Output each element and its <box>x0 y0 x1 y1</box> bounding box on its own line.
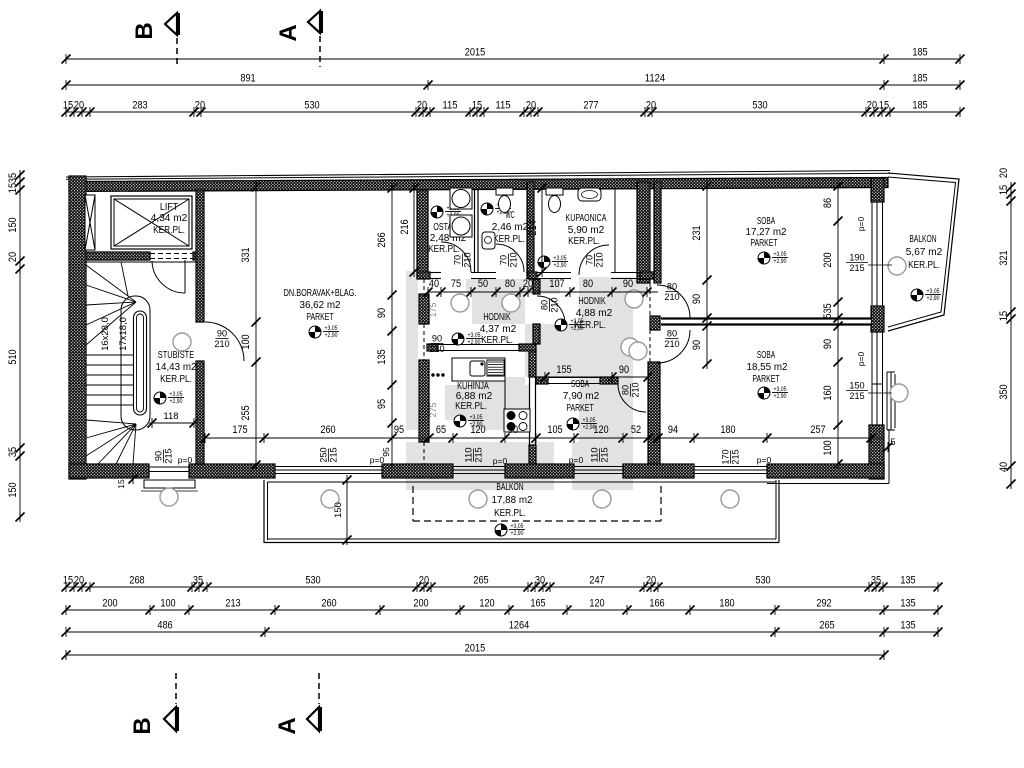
svg-text:321: 321 <box>998 250 1010 265</box>
svg-text:155: 155 <box>556 364 571 376</box>
svg-text:20: 20 <box>646 100 656 112</box>
svg-text:20: 20 <box>998 168 1010 178</box>
svg-text:80: 80 <box>583 278 593 290</box>
svg-text:p=0: p=0 <box>757 455 772 465</box>
svg-text:180: 180 <box>720 424 735 436</box>
svg-text:215: 215 <box>849 263 864 273</box>
svg-text:115: 115 <box>495 100 510 112</box>
svg-text:PARKET: PARKET <box>306 312 333 323</box>
svg-text:255: 255 <box>240 405 252 420</box>
svg-text:90: 90 <box>691 294 703 304</box>
svg-text:KER.PL.: KER.PL. <box>455 401 487 412</box>
svg-text:90: 90 <box>376 308 388 318</box>
svg-text:90: 90 <box>154 451 164 461</box>
svg-text:213: 213 <box>225 598 240 610</box>
svg-text:70: 70 <box>453 255 463 265</box>
svg-text:35: 35 <box>7 173 19 183</box>
svg-text:275: 275 <box>428 403 439 418</box>
svg-text:LIFT: LIFT <box>160 202 178 213</box>
svg-text:80: 80 <box>540 300 550 310</box>
svg-text:80: 80 <box>667 329 677 339</box>
svg-text:135: 135 <box>376 349 388 364</box>
svg-text:p=0: p=0 <box>569 455 584 465</box>
svg-text:16x28,0: 16x28,0 <box>100 317 111 351</box>
svg-text:70: 70 <box>499 255 509 265</box>
svg-text:5,90 m2: 5,90 m2 <box>568 225 605 236</box>
svg-text:65: 65 <box>436 424 446 436</box>
svg-text:190: 190 <box>849 253 864 263</box>
svg-text:PARKET: PARKET <box>566 403 593 414</box>
svg-text:185: 185 <box>912 100 927 112</box>
svg-text:90: 90 <box>822 339 834 349</box>
svg-text:75: 75 <box>451 278 461 290</box>
svg-text:14,43 m2: 14,43 m2 <box>156 362 197 373</box>
svg-text:20: 20 <box>74 575 84 587</box>
svg-text:100: 100 <box>240 334 252 349</box>
svg-text:17,88 m2: 17,88 m2 <box>492 495 533 506</box>
svg-text:214: 214 <box>527 220 539 235</box>
svg-text:260: 260 <box>321 598 336 610</box>
svg-text:+2,90: +2,90 <box>571 326 585 332</box>
svg-text:A: A <box>275 24 302 41</box>
svg-text:2015: 2015 <box>465 643 485 655</box>
svg-text:120: 120 <box>470 424 485 436</box>
svg-text:35: 35 <box>7 447 19 457</box>
svg-text:15: 15 <box>472 100 482 112</box>
svg-text:B: B <box>131 22 158 39</box>
svg-text:530: 530 <box>304 100 319 112</box>
svg-text:SOBA: SOBA <box>757 216 775 227</box>
svg-text:135: 135 <box>900 598 915 610</box>
svg-text:535: 535 <box>822 303 834 318</box>
svg-text:PARKET: PARKET <box>750 238 777 249</box>
svg-text:120: 120 <box>593 424 608 436</box>
svg-text:180: 180 <box>719 598 734 610</box>
svg-text:20: 20 <box>195 100 205 112</box>
svg-text:266: 266 <box>376 232 388 247</box>
svg-text:KUPAONICA: KUPAONICA <box>566 213 607 224</box>
svg-text:+2,90: +2,90 <box>468 340 482 346</box>
svg-text:135: 135 <box>900 620 915 632</box>
svg-text:BALKON: BALKON <box>909 234 936 245</box>
svg-text:200: 200 <box>413 598 428 610</box>
svg-text:15: 15 <box>998 311 1010 321</box>
svg-text:170: 170 <box>721 449 731 464</box>
svg-text:331: 331 <box>240 247 252 262</box>
svg-text:210: 210 <box>463 252 473 267</box>
svg-text:p=0: p=0 <box>856 352 866 367</box>
svg-text:150: 150 <box>333 502 344 518</box>
svg-text:100: 100 <box>822 440 834 455</box>
svg-text:200: 200 <box>822 252 834 267</box>
svg-text:530: 530 <box>752 100 767 112</box>
svg-text:+2,90: +2,90 <box>927 296 941 302</box>
svg-text:260: 260 <box>320 424 335 436</box>
svg-text:891: 891 <box>240 73 255 85</box>
svg-text:STUBISTE: STUBISTE <box>158 350 195 361</box>
svg-text:p=0: p=0 <box>493 456 508 466</box>
svg-text:100: 100 <box>160 598 175 610</box>
svg-text:120: 120 <box>589 598 604 610</box>
svg-text:247: 247 <box>589 575 604 587</box>
svg-text:90: 90 <box>623 278 633 290</box>
svg-text:283: 283 <box>132 100 147 112</box>
svg-text:115: 115 <box>442 100 457 112</box>
svg-text:231: 231 <box>691 225 703 240</box>
svg-text:17x18,0: 17x18,0 <box>118 317 129 351</box>
svg-text:17,27 m2: 17,27 m2 <box>746 227 787 238</box>
svg-text:20: 20 <box>417 100 427 112</box>
svg-text:+2,90: +2,90 <box>554 263 568 269</box>
svg-text:90: 90 <box>691 340 703 350</box>
svg-text:210: 210 <box>429 344 444 354</box>
svg-text:210: 210 <box>595 252 605 267</box>
svg-text:+2,90: +2,90 <box>774 259 788 265</box>
svg-text:268: 268 <box>129 575 144 587</box>
svg-text:30: 30 <box>535 575 545 587</box>
svg-text:80: 80 <box>667 282 677 292</box>
svg-text:15: 15 <box>116 479 126 489</box>
svg-text:80: 80 <box>621 385 631 395</box>
svg-text:110: 110 <box>464 447 474 462</box>
svg-text:90: 90 <box>508 424 518 436</box>
svg-text:+2,90: +2,90 <box>170 399 184 405</box>
svg-text:+2,90: +2,90 <box>511 531 525 537</box>
svg-text:1264: 1264 <box>509 620 529 632</box>
svg-text:20: 20 <box>74 100 84 112</box>
svg-text:185: 185 <box>912 73 927 85</box>
svg-text:175: 175 <box>428 303 439 318</box>
svg-text:20: 20 <box>7 252 19 262</box>
svg-text:70: 70 <box>585 255 595 265</box>
svg-text:210: 210 <box>631 382 641 397</box>
svg-text:120: 120 <box>479 598 494 610</box>
svg-text:95: 95 <box>394 424 404 436</box>
svg-text:HODNIK: HODNIK <box>483 312 511 323</box>
svg-text:530: 530 <box>755 575 770 587</box>
svg-text:250: 250 <box>319 447 329 462</box>
svg-text:166: 166 <box>649 598 664 610</box>
svg-text:94: 94 <box>668 424 678 436</box>
svg-text:150: 150 <box>849 381 864 391</box>
svg-text:215: 215 <box>474 447 484 462</box>
svg-text:215: 215 <box>164 448 174 463</box>
svg-text:35: 35 <box>871 575 881 587</box>
svg-text:95: 95 <box>381 447 391 457</box>
svg-text:15: 15 <box>879 100 889 112</box>
svg-text:A: A <box>274 717 301 734</box>
svg-text:KER.PL.: KER.PL. <box>494 508 526 519</box>
svg-text:BALKON: BALKON <box>496 482 523 493</box>
svg-text:HODNIK: HODNIK <box>578 296 606 307</box>
svg-text:40: 40 <box>429 278 439 290</box>
svg-text:KER.PL.: KER.PL. <box>481 335 513 346</box>
svg-text:200: 200 <box>102 598 117 610</box>
svg-text:110: 110 <box>590 447 600 462</box>
svg-text:265: 265 <box>473 575 488 587</box>
svg-text:510: 510 <box>7 349 19 364</box>
svg-text:175: 175 <box>232 424 247 436</box>
svg-text:150: 150 <box>7 217 19 232</box>
svg-text:5,67 m2: 5,67 m2 <box>906 247 943 258</box>
svg-text:150: 150 <box>7 482 19 497</box>
svg-text:80: 80 <box>505 278 515 290</box>
svg-text:257: 257 <box>810 424 825 436</box>
svg-text:4,37 m2: 4,37 m2 <box>480 324 517 335</box>
svg-text:215: 215 <box>329 447 339 462</box>
svg-text:SOBA: SOBA <box>757 350 775 361</box>
svg-text:210: 210 <box>550 297 560 312</box>
svg-text:KER.PL.: KER.PL. <box>493 234 525 245</box>
svg-text:5: 5 <box>890 437 895 447</box>
svg-text:50: 50 <box>478 278 488 290</box>
svg-text:p=0: p=0 <box>178 455 193 465</box>
svg-text:486: 486 <box>157 620 172 632</box>
svg-text:20: 20 <box>523 278 533 290</box>
svg-text:277: 277 <box>583 100 598 112</box>
svg-text:107: 107 <box>549 278 564 290</box>
svg-text:18,55 m2: 18,55 m2 <box>747 362 788 373</box>
svg-text:15: 15 <box>63 575 73 587</box>
svg-text:+2,90: +2,90 <box>325 333 339 339</box>
svg-text:SOBA: SOBA <box>571 379 589 390</box>
svg-text:20: 20 <box>867 100 877 112</box>
svg-text:15: 15 <box>7 183 19 193</box>
svg-text:52: 52 <box>631 424 641 436</box>
svg-text:7,90 m2: 7,90 m2 <box>563 391 600 402</box>
svg-text:15: 15 <box>998 185 1010 195</box>
svg-text:20: 20 <box>646 575 656 587</box>
svg-text:165: 165 <box>530 598 545 610</box>
svg-text:215: 215 <box>849 391 864 401</box>
svg-text:90: 90 <box>619 364 629 376</box>
svg-text:90: 90 <box>432 334 442 344</box>
svg-text:185: 185 <box>912 47 927 59</box>
svg-text:KER.PL.: KER.PL. <box>908 260 940 271</box>
svg-text:160: 160 <box>822 385 834 400</box>
svg-text:DN.BORAVAK+BLAG.: DN.BORAVAK+BLAG. <box>284 288 357 299</box>
svg-text:KER.PL.: KER.PL. <box>153 225 185 236</box>
svg-text:KER.PL.: KER.PL. <box>428 244 460 255</box>
svg-text:40: 40 <box>998 462 1010 472</box>
svg-text:265: 265 <box>819 620 834 632</box>
svg-text:15: 15 <box>63 100 73 112</box>
svg-text:90: 90 <box>217 329 227 339</box>
svg-text:210: 210 <box>664 292 679 302</box>
svg-text:215: 215 <box>731 449 741 464</box>
svg-text:B: B <box>129 717 156 734</box>
svg-text:p=0: p=0 <box>856 217 866 232</box>
svg-text:210: 210 <box>509 252 519 267</box>
svg-text:215: 215 <box>600 447 610 462</box>
svg-text:35: 35 <box>193 575 203 587</box>
svg-text:135: 135 <box>900 575 915 587</box>
svg-text:+2,90: +2,90 <box>774 394 788 400</box>
svg-text:210: 210 <box>664 339 679 349</box>
svg-text:PARKET: PARKET <box>752 374 779 385</box>
svg-text:210: 210 <box>214 339 229 349</box>
svg-text:KER.PL.: KER.PL. <box>568 236 600 247</box>
svg-text:86: 86 <box>822 198 834 208</box>
svg-text:105: 105 <box>547 424 562 436</box>
svg-text:1124: 1124 <box>645 73 665 85</box>
svg-text:292: 292 <box>816 598 831 610</box>
svg-text:36,62 m2: 36,62 m2 <box>300 300 341 311</box>
svg-text:4,34 m2: 4,34 m2 <box>151 213 188 224</box>
svg-text:95: 95 <box>376 399 388 409</box>
svg-text:20: 20 <box>526 100 536 112</box>
svg-text:4,88 m2: 4,88 m2 <box>576 308 613 319</box>
svg-text:2015: 2015 <box>465 47 485 59</box>
svg-text:118: 118 <box>163 411 178 422</box>
svg-text:530: 530 <box>305 575 320 587</box>
svg-text:20: 20 <box>419 575 429 587</box>
svg-text:216: 216 <box>399 219 411 234</box>
svg-text:2,46 m2: 2,46 m2 <box>492 222 529 233</box>
svg-text:KER.PL.: KER.PL. <box>160 374 192 385</box>
svg-text:350: 350 <box>998 384 1010 399</box>
